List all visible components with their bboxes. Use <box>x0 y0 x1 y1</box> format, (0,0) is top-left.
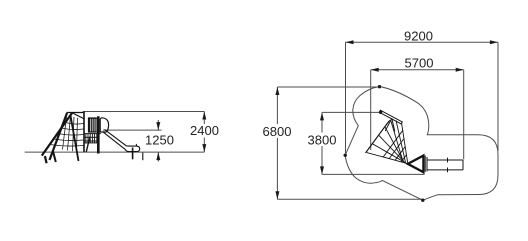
node dot: blob left (9200 ref) <box>344 154 347 157</box>
svg-text:3800: 3800 <box>308 132 337 147</box>
tower panel with vertical slats <box>88 118 96 132</box>
plan net cross ropes <box>383 130 403 157</box>
dimension 2400 vertical line <box>203 112 205 125</box>
slide support leg <box>132 148 134 160</box>
svg-text:2400: 2400 <box>190 123 219 138</box>
5700 left extension line <box>370 70 372 150</box>
svg-text:1250: 1250 <box>145 133 174 148</box>
dimension 3800 vertical line <box>321 112 323 132</box>
slide plan top edge <box>427 159 463 161</box>
9200 left extension line <box>345 42 347 153</box>
3800 bottom extension line <box>322 173 425 175</box>
slide foot and rounded end <box>125 146 140 152</box>
top reference line (tower top height) <box>83 111 205 113</box>
svg-text:5700: 5700 <box>405 56 434 71</box>
dimension 9200 line <box>346 41 498 43</box>
slide anchor stake <box>142 153 144 161</box>
5700 right extension line <box>463 70 465 160</box>
plan net fan ropes <box>366 152 408 163</box>
dimension 1250 reference line (platform height) <box>103 129 162 131</box>
node dot: net beam end (3800 ref) <box>379 111 382 114</box>
net mesh horizontal ropes <box>65 123 83 125</box>
slide entry funnel (open triangle) <box>408 156 424 173</box>
railing balusters <box>85 134 87 143</box>
svg-text:9200: 9200 <box>404 28 433 43</box>
slide plan tick marks <box>447 158 449 163</box>
9200 right extension line <box>497 42 499 151</box>
ground line <box>25 151 205 153</box>
dimension 5700 line <box>371 69 464 71</box>
slide entry hood (dome) <box>100 118 108 132</box>
climbing net pole B <box>50 113 68 160</box>
tower right post <box>97 116 100 153</box>
dimension 6800 vertical line <box>276 87 278 124</box>
climbing net pole A <box>42 113 72 156</box>
slide plan end <box>462 160 464 170</box>
platform rails <box>84 133 101 135</box>
net mesh vertical ropes <box>63 117 67 150</box>
tower diagonal brace <box>86 137 90 153</box>
dimension 2400 arrowheads <box>202 112 206 120</box>
net ridge line 2 <box>67 112 84 114</box>
plan net left pole (double line) <box>366 120 389 152</box>
node dot: blob top (6800 ref) <box>378 85 381 88</box>
net anchor stub A <box>45 156 47 163</box>
slide plan bottom edge <box>427 169 463 171</box>
slide plan start verticals <box>424 156 426 172</box>
tower left post <box>83 112 85 153</box>
net ridge line to tower <box>72 113 84 119</box>
plan net top beam <box>379 110 402 124</box>
climbing net pole C <box>71 116 79 162</box>
svg-text:6800: 6800 <box>263 124 292 139</box>
6800 bottom extension line <box>277 198 421 200</box>
plan net beam legs <box>385 118 392 131</box>
node dot: blob bottom (6800 ref) <box>421 199 424 202</box>
net anchor stub B <box>53 151 56 163</box>
dimension 1250 arrowheads (outside) <box>157 120 159 130</box>
slide chute upper edge <box>105 129 127 145</box>
slide end lip <box>135 144 137 146</box>
slide chute lower edge <box>103 132 126 150</box>
3800 top extension line <box>322 111 379 113</box>
safety zone outline (blob) <box>345 87 498 201</box>
6800 top extension line <box>277 86 378 88</box>
